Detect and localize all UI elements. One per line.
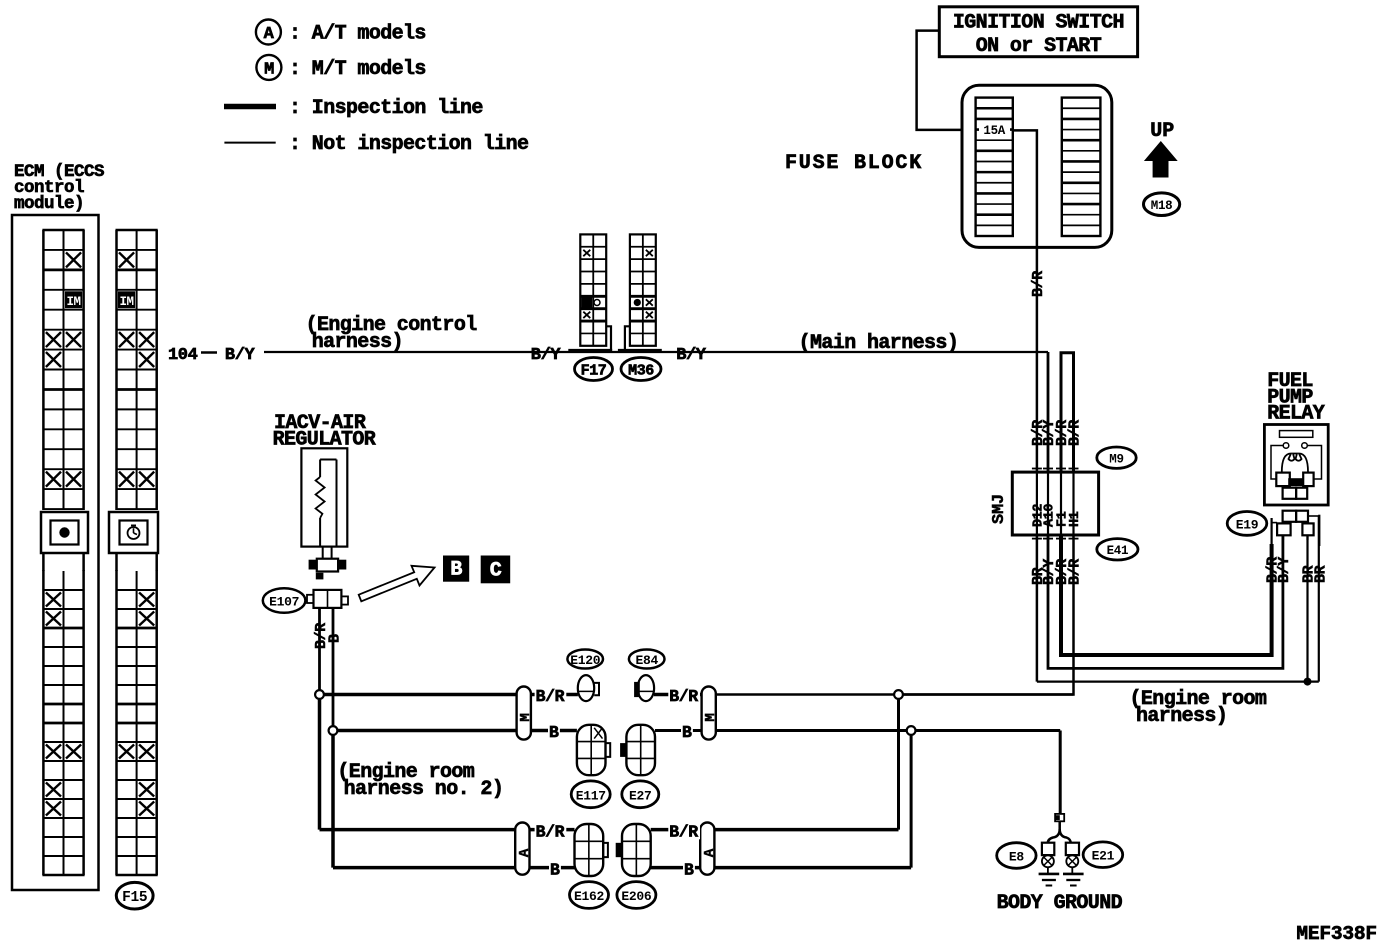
svg-text:A: A [517, 848, 533, 857]
svg-text:B/Y: B/Y [676, 346, 707, 365]
svg-text:M: M [264, 60, 274, 79]
svg-text:C: C [490, 560, 502, 583]
svg-text:E27: E27 [629, 789, 652, 804]
svg-text:B: B [549, 723, 559, 742]
svg-text:A: A [702, 848, 718, 857]
svg-text:RELAY: RELAY [1267, 403, 1325, 426]
svg-text:B/R: B/R [669, 823, 698, 842]
svg-text:B: B [450, 559, 462, 582]
svg-text:harness no. 2): harness no. 2) [344, 778, 504, 801]
svg-text:E107: E107 [269, 595, 299, 610]
svg-text:SMJ: SMJ [990, 494, 1009, 524]
svg-text:E19: E19 [1236, 518, 1259, 533]
svg-text:BODY GROUND: BODY GROUND [997, 892, 1123, 915]
svg-text:104: 104 [168, 346, 198, 365]
svg-text:module): module) [14, 194, 84, 214]
svg-text:IM: IM [120, 295, 134, 309]
svg-text:E8: E8 [1009, 850, 1025, 865]
svg-text:E206: E206 [621, 889, 652, 904]
svg-text:E117: E117 [576, 789, 606, 804]
svg-text:A: A [264, 25, 275, 44]
svg-text:M: M [703, 714, 719, 722]
svg-text:: M/T models: : M/T models [289, 58, 426, 81]
svg-text:B/Y: B/Y [225, 346, 256, 365]
svg-text:UP: UP [1150, 120, 1174, 143]
svg-text:E41: E41 [1107, 544, 1129, 558]
svg-text:B: B [327, 634, 344, 643]
svg-text:E120: E120 [570, 653, 601, 668]
svg-text:E21: E21 [1092, 849, 1115, 864]
svg-text:ON or START: ON or START [976, 35, 1102, 58]
svg-text:B: B [550, 861, 560, 880]
svg-text:B/R: B/R [669, 687, 698, 706]
svg-text:B/Y: B/Y [1276, 557, 1293, 583]
svg-text:B/R: B/R [1067, 559, 1084, 585]
svg-text:: A/T models: : A/T models [289, 23, 426, 46]
svg-text:15A: 15A [983, 124, 1005, 138]
svg-text:M36: M36 [628, 363, 654, 380]
svg-text:B/R: B/R [536, 687, 565, 706]
svg-text:F15: F15 [122, 890, 147, 906]
svg-text:E162: E162 [574, 889, 605, 904]
svg-text:B/R: B/R [536, 823, 565, 842]
svg-text:IM: IM [67, 295, 81, 309]
svg-text:B/R: B/R [1067, 420, 1084, 446]
svg-text:B/Y: B/Y [531, 346, 562, 365]
svg-text:E84: E84 [635, 653, 658, 668]
svg-text:: Not inspection line: : Not inspection line [289, 133, 529, 156]
svg-text:H1: H1 [1068, 511, 1083, 527]
svg-text:M: M [518, 714, 534, 722]
svg-text:BR: BR [1312, 565, 1329, 583]
svg-text:(Main harness): (Main harness) [799, 332, 959, 355]
svg-text:harness): harness) [1136, 705, 1227, 728]
svg-text:FUSE BLOCK: FUSE BLOCK [785, 152, 923, 175]
svg-text:MEF338F: MEF338F [1296, 923, 1377, 945]
svg-text:M9: M9 [1109, 453, 1123, 467]
svg-text:: Inspection line: : Inspection line [289, 97, 483, 120]
svg-text:M18: M18 [1151, 199, 1173, 213]
svg-text:F17: F17 [581, 363, 607, 380]
svg-text:harness): harness) [312, 331, 403, 354]
svg-text:IGNITION SWITCH: IGNITION SWITCH [953, 12, 1124, 35]
svg-text:B: B [684, 861, 694, 880]
svg-text:B/R: B/R [1030, 271, 1047, 297]
svg-text:B: B [682, 723, 692, 742]
